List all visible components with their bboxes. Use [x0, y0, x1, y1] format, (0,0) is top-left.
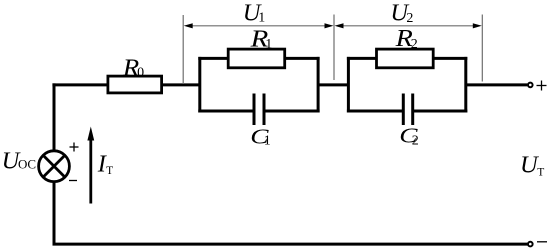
svg-text:T: T — [106, 165, 113, 177]
svg-text:2: 2 — [411, 37, 418, 52]
svg-text:T: T — [537, 166, 544, 178]
svg-text:1: 1 — [258, 11, 265, 26]
svg-text:1: 1 — [265, 37, 272, 52]
svg-text:0: 0 — [137, 66, 144, 81]
svg-text:2: 2 — [412, 133, 419, 148]
svg-text:2: 2 — [406, 11, 413, 26]
svg-text:1: 1 — [264, 134, 271, 149]
svg-text:OC: OC — [18, 157, 36, 172]
